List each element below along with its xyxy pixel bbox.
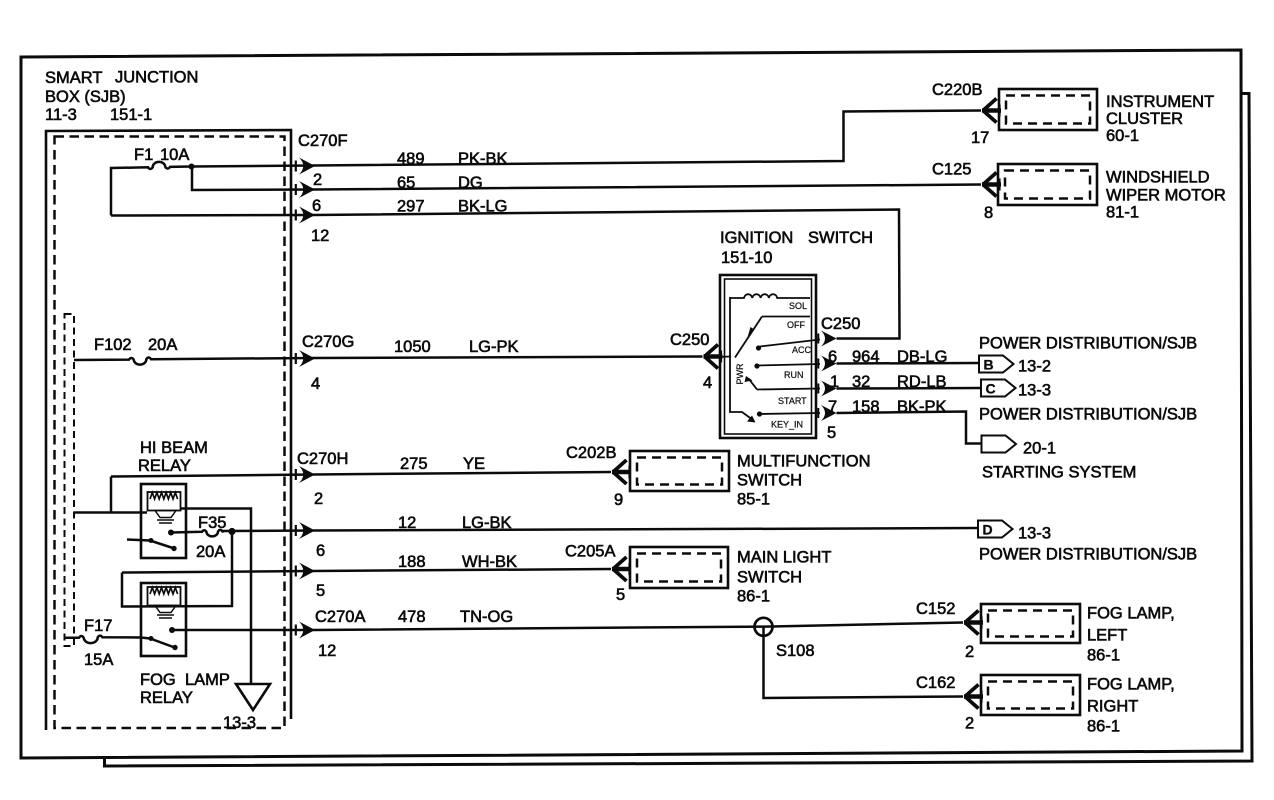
- svg-text:SMART: SMART: [45, 69, 102, 87]
- svg-text:5: 5: [316, 582, 325, 600]
- svg-text:SWITCH: SWITCH: [737, 472, 802, 490]
- svg-text:FOG: FOG: [140, 671, 176, 689]
- svg-text:YE: YE: [463, 455, 485, 473]
- svg-text:C270A: C270A: [315, 608, 365, 626]
- svg-text:BOX (SJB): BOX (SJB): [45, 88, 126, 106]
- svg-text:C125: C125: [932, 161, 971, 179]
- svg-text:SOL: SOL: [789, 301, 807, 311]
- svg-text:13-3: 13-3: [1018, 382, 1051, 400]
- svg-text:13-3: 13-3: [1018, 525, 1051, 543]
- svg-text:RUN: RUN: [784, 370, 804, 380]
- svg-text:C250: C250: [670, 331, 709, 349]
- svg-text:LG-PK: LG-PK: [469, 338, 519, 356]
- svg-text:13-2: 13-2: [1018, 358, 1051, 376]
- svg-text:60-1: 60-1: [1106, 127, 1139, 145]
- svg-text:17: 17: [971, 129, 989, 147]
- svg-text:PWR: PWR: [735, 363, 745, 384]
- svg-text:12: 12: [398, 514, 416, 532]
- svg-text:65: 65: [397, 174, 415, 192]
- svg-text:B: B: [984, 357, 994, 373]
- svg-text:DG: DG: [458, 174, 483, 192]
- svg-text:81-1: 81-1: [1106, 204, 1139, 222]
- svg-text:JUNCTION: JUNCTION: [115, 69, 198, 87]
- svg-text:RIGHT: RIGHT: [1087, 698, 1138, 716]
- svg-text:5: 5: [827, 424, 836, 442]
- svg-text:MAIN LIGHT: MAIN LIGHT: [737, 549, 831, 567]
- svg-text:FOG LAMP,: FOG LAMP,: [1087, 605, 1175, 623]
- svg-text:RELAY: RELAY: [138, 457, 191, 475]
- svg-text:C270F: C270F: [298, 132, 348, 150]
- svg-text:275: 275: [400, 455, 428, 473]
- svg-text:RELAY: RELAY: [140, 689, 193, 707]
- svg-text:20A: 20A: [148, 336, 177, 354]
- svg-text:C220B: C220B: [932, 81, 982, 99]
- svg-text:S108: S108: [776, 642, 815, 660]
- svg-text:20-1: 20-1: [1023, 440, 1056, 458]
- svg-text:STARTING SYSTEM: STARTING SYSTEM: [982, 464, 1136, 482]
- svg-text:2: 2: [313, 171, 322, 189]
- svg-text:POWER DISTRIBUTION/SJB: POWER DISTRIBUTION/SJB: [979, 546, 1197, 564]
- svg-text:489: 489: [397, 150, 425, 168]
- svg-text:F1: F1: [134, 146, 153, 164]
- svg-text:SWITCH: SWITCH: [737, 569, 802, 587]
- svg-text:85-1: 85-1: [737, 491, 770, 509]
- svg-text:11-3: 11-3: [45, 106, 77, 124]
- svg-text:CLUSTER: CLUSTER: [1106, 110, 1183, 128]
- svg-text:20A: 20A: [196, 543, 225, 561]
- svg-text:12: 12: [318, 642, 336, 660]
- svg-text:TN-OG: TN-OG: [460, 608, 513, 626]
- svg-text:LG-BK: LG-BK: [462, 514, 512, 532]
- svg-text:WINDSHIELD: WINDSHIELD: [1106, 169, 1210, 187]
- svg-text:10A: 10A: [160, 146, 189, 164]
- svg-text:4: 4: [703, 374, 712, 392]
- svg-text:8: 8: [984, 204, 993, 222]
- svg-text:C: C: [986, 381, 996, 397]
- svg-text:POWER DISTRIBUTION/SJB: POWER DISTRIBUTION/SJB: [979, 335, 1197, 353]
- svg-text:188: 188: [398, 553, 426, 571]
- svg-text:12: 12: [311, 227, 329, 245]
- svg-text:6: 6: [316, 542, 325, 560]
- svg-text:F17: F17: [84, 617, 112, 635]
- svg-text:INSTRUMENT: INSTRUMENT: [1106, 93, 1214, 111]
- svg-text:1050: 1050: [394, 338, 431, 356]
- svg-text:2: 2: [965, 715, 974, 733]
- svg-text:C152: C152: [916, 600, 955, 618]
- svg-text:4: 4: [311, 375, 320, 393]
- svg-text:C202B: C202B: [566, 444, 616, 462]
- svg-text:151-1: 151-1: [110, 106, 152, 124]
- svg-text:START: START: [778, 396, 807, 406]
- svg-text:C250: C250: [821, 315, 860, 333]
- svg-text:6: 6: [312, 197, 321, 215]
- svg-text:LEFT: LEFT: [1087, 627, 1127, 645]
- svg-text:C162: C162: [916, 674, 955, 692]
- svg-text:86-1: 86-1: [737, 588, 770, 606]
- svg-text:9: 9: [614, 491, 623, 509]
- svg-text:C205A: C205A: [565, 543, 615, 561]
- svg-text:2: 2: [965, 643, 974, 661]
- svg-text:IGNITION: IGNITION: [720, 229, 793, 247]
- svg-text:LAMP: LAMP: [185, 671, 230, 689]
- svg-text:FOG LAMP,: FOG LAMP,: [1087, 676, 1175, 694]
- svg-text:D: D: [983, 522, 993, 538]
- svg-text:15A: 15A: [84, 651, 113, 669]
- svg-text:MULTIFUNCTION: MULTIFUNCTION: [737, 453, 871, 471]
- svg-text:297: 297: [397, 198, 425, 216]
- svg-text:151-10: 151-10: [721, 249, 772, 267]
- svg-text:SWITCH: SWITCH: [808, 229, 873, 247]
- svg-text:OFF: OFF: [787, 320, 805, 330]
- svg-text:F102: F102: [94, 336, 132, 354]
- svg-text:C270H: C270H: [297, 450, 348, 468]
- svg-text:C270G: C270G: [302, 333, 354, 351]
- svg-text:KEY_IN: KEY_IN: [771, 420, 803, 430]
- svg-text:2: 2: [314, 490, 323, 508]
- svg-text:POWER DISTRIBUTION/SJB: POWER DISTRIBUTION/SJB: [979, 406, 1197, 424]
- svg-text:PK-BK: PK-BK: [458, 150, 508, 168]
- svg-text:13-3: 13-3: [223, 714, 256, 732]
- svg-text:BK-LG: BK-LG: [458, 198, 508, 216]
- svg-text:86-1: 86-1: [1087, 647, 1120, 665]
- svg-text:86-1: 86-1: [1087, 718, 1120, 736]
- svg-text:WH-BK: WH-BK: [462, 553, 517, 571]
- svg-text:5: 5: [616, 586, 625, 604]
- svg-text:WIPER MOTOR: WIPER MOTOR: [1106, 187, 1226, 205]
- svg-text:478: 478: [398, 608, 426, 626]
- svg-text:HI BEAM: HI BEAM: [140, 439, 208, 457]
- svg-text:ACC: ACC: [792, 345, 812, 355]
